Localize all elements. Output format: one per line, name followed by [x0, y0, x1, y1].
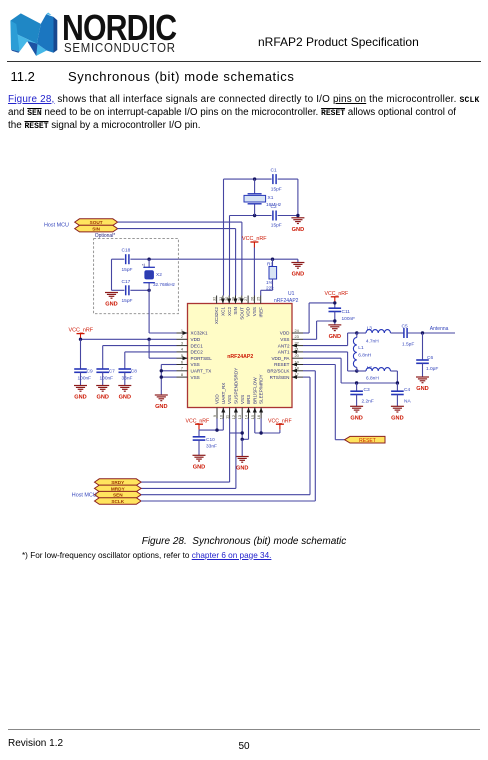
svg-text:GND: GND — [74, 395, 86, 401]
svg-text:VSS: VSS — [240, 395, 245, 404]
svg-text:Antenna: Antenna — [430, 326, 449, 332]
svg-text:1.5pF: 1.5pF — [402, 341, 414, 347]
svg-text:3: 3 — [181, 340, 183, 345]
svg-text:4: 4 — [181, 347, 184, 352]
svg-text:GND: GND — [105, 302, 117, 308]
svg-text:SCLK: SCLK — [111, 499, 124, 504]
svg-text:C4: C4 — [404, 387, 410, 393]
svg-text:VSS: VSS — [191, 375, 200, 380]
svg-text:GND: GND — [155, 404, 167, 410]
svg-text:GND: GND — [119, 395, 131, 401]
svg-text:33nF: 33nF — [206, 444, 217, 450]
svg-text:Host MCU: Host MCU — [44, 223, 69, 229]
svg-text:VSS: VSS — [280, 337, 289, 342]
svg-text:DEC2: DEC2 — [191, 350, 204, 355]
svg-text:PORTSEL: PORTSEL — [191, 356, 213, 361]
svg-text:10: 10 — [218, 414, 223, 419]
svg-text:ANT1: ANT1 — [278, 350, 290, 355]
svg-text:NA: NA — [404, 398, 411, 404]
svg-text:L1: L1 — [358, 345, 364, 351]
svg-text:100nF: 100nF — [78, 375, 92, 381]
svg-text:VSS: VSS — [227, 395, 232, 404]
svg-text:25: 25 — [256, 297, 261, 301]
svg-text:nRF24AP2: nRF24AP2 — [274, 298, 299, 304]
svg-text:C10: C10 — [206, 437, 215, 443]
svg-text:7: 7 — [181, 366, 183, 371]
svg-text:U1: U1 — [288, 291, 295, 297]
svg-text:UART_RX: UART_RX — [221, 383, 226, 404]
svg-text:ANT2: ANT2 — [278, 343, 290, 348]
svg-text:VCC_nRF: VCC_nRF — [69, 328, 94, 334]
svg-text:Host MCU: Host MCU — [72, 492, 97, 498]
svg-text:32.768kHz: 32.768kHz — [153, 282, 176, 287]
svg-text:C5: C5 — [402, 324, 408, 330]
svg-text:UART_TX: UART_TX — [191, 369, 212, 374]
svg-text:RTS/SEN: RTS/SEN — [270, 375, 290, 380]
svg-text:GND: GND — [236, 466, 248, 472]
svg-text:C18: C18 — [122, 248, 131, 254]
svg-text:C9: C9 — [87, 369, 93, 375]
svg-text:VCC_nRF: VCC_nRF — [268, 418, 292, 424]
svg-text:SUSPEND/SRDY: SUSPEND/SRDY — [234, 368, 239, 404]
svg-text:4.7nH: 4.7nH — [366, 338, 379, 344]
svg-text:27: 27 — [243, 297, 248, 301]
svg-text:RESET: RESET — [359, 438, 376, 444]
svg-text:100nF: 100nF — [100, 375, 114, 381]
svg-text:L3: L3 — [367, 325, 373, 331]
svg-text:SOUT: SOUT — [90, 220, 103, 225]
svg-text:14: 14 — [244, 414, 249, 419]
svg-text:C8: C8 — [131, 369, 137, 375]
svg-text:VSS: VSS — [191, 362, 200, 367]
svg-text:15pF: 15pF — [271, 223, 282, 229]
svg-text:9: 9 — [212, 415, 217, 417]
svg-text:XC32K1: XC32K1 — [191, 331, 209, 336]
svg-text:SIN: SIN — [233, 307, 238, 315]
svg-text:SOUT: SOUT — [239, 307, 244, 320]
svg-text:X2: X2 — [156, 272, 162, 278]
svg-text:GND: GND — [391, 416, 403, 422]
svg-text:BR2/SCLK: BR2/SCLK — [267, 369, 290, 374]
svg-text:15pF: 15pF — [122, 267, 133, 273]
svg-text:33nF: 33nF — [122, 375, 133, 381]
svg-text:R1: R1 — [267, 262, 273, 268]
svg-text:DEC1: DEC1 — [191, 343, 204, 348]
svg-text:VCC_nRF: VCC_nRF — [325, 291, 349, 297]
svg-text:nRF24AP2: nRF24AP2 — [227, 354, 253, 360]
svg-text:VDD: VDD — [191, 337, 201, 342]
svg-text:XC32K2: XC32K2 — [214, 307, 219, 325]
svg-text:13: 13 — [237, 415, 242, 419]
svg-text:1.0pF: 1.0pF — [426, 366, 438, 372]
svg-text:C1: C1 — [271, 168, 277, 174]
svg-text:MRDY: MRDY — [111, 486, 126, 491]
svg-text:XC2: XC2 — [227, 307, 232, 316]
svg-text:Optional*: Optional* — [95, 233, 116, 239]
svg-text:C17: C17 — [122, 279, 131, 285]
svg-text:C11: C11 — [342, 309, 351, 315]
svg-text:GND: GND — [292, 227, 304, 233]
svg-text:BR1/SFLOW: BR1/SFLOW — [252, 377, 257, 404]
svg-text:32: 32 — [212, 297, 217, 301]
svg-text:11: 11 — [225, 415, 230, 419]
svg-text:L2: L2 — [367, 365, 373, 371]
svg-text:XC1: XC1 — [221, 307, 226, 316]
svg-text:16: 16 — [256, 415, 261, 419]
svg-text:15pF: 15pF — [271, 187, 282, 193]
svg-text:VCC_nRF: VCC_nRF — [186, 418, 210, 424]
svg-text:6.8nH: 6.8nH — [366, 376, 379, 382]
svg-text:SEN: SEN — [113, 493, 123, 498]
svg-text:GND: GND — [292, 272, 304, 278]
svg-text:VDD: VDD — [246, 306, 251, 316]
svg-text:23: 23 — [295, 334, 299, 339]
svg-text:8: 8 — [181, 372, 183, 377]
svg-text:SIN: SIN — [92, 227, 100, 232]
svg-text:24: 24 — [295, 328, 300, 333]
svg-text:GND: GND — [96, 395, 108, 401]
svg-text:12: 12 — [231, 415, 236, 419]
svg-text:*): *) — [142, 263, 146, 268]
svg-text:GND: GND — [193, 465, 205, 471]
svg-text:GND: GND — [350, 416, 362, 422]
svg-text:VCC_nRF: VCC_nRF — [242, 236, 267, 242]
svg-text:VDD: VDD — [215, 394, 220, 404]
svg-text:VDD: VDD — [280, 331, 290, 336]
svg-text:C7: C7 — [109, 369, 115, 375]
svg-text:6.8nH: 6.8nH — [358, 352, 371, 358]
svg-text:C2: C2 — [271, 204, 277, 210]
svg-text:C3: C3 — [364, 387, 370, 393]
svg-text:15pF: 15pF — [122, 298, 133, 304]
svg-text:X1: X1 — [268, 195, 274, 201]
svg-text:SLEEP/MRDY: SLEEP/MRDY — [259, 374, 264, 404]
svg-text:IREF: IREF — [258, 307, 263, 318]
svg-text:GND: GND — [416, 386, 428, 392]
svg-text:SRDY: SRDY — [111, 480, 125, 485]
svg-text:BR3: BR3 — [246, 395, 251, 404]
svg-text:GND: GND — [329, 334, 341, 340]
svg-text:100nF: 100nF — [342, 316, 356, 322]
svg-text:VDD_PA: VDD_PA — [271, 356, 290, 361]
svg-text:RESET: RESET — [274, 362, 290, 367]
svg-text:15: 15 — [250, 415, 255, 419]
svg-text:VSS: VSS — [252, 307, 257, 316]
svg-text:20: 20 — [295, 353, 300, 358]
svg-text:26: 26 — [249, 297, 254, 301]
svg-text:C6: C6 — [427, 355, 433, 361]
svg-text:2.2nF: 2.2nF — [362, 398, 374, 404]
